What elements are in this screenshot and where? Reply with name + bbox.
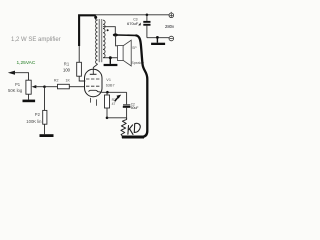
ground below P1 [23,100,36,103]
wire node to R2 [45,86,58,88]
svg-text:1,2 W SE amplifier: 1,2 W SE amplifier [11,37,61,43]
terminal minus [169,36,174,41]
KD logo K [128,125,133,134]
terminal plus [170,12,172,13]
svg-text:R1: R1 [64,62,70,67]
junction dot bottom tap [109,56,112,59]
ground at B- [156,38,158,43]
top supply rail [95,14,170,16]
svg-text:P2: P2 [35,112,41,117]
P1 bottom wire [28,94,30,99]
transformer T1 core [99,19,100,62]
cathode [89,90,102,92]
wire blob down to speaker [116,35,118,46]
svg-text:47: 47 [112,102,116,106]
wire secondary bottom tap [103,57,118,59]
svg-text:P1: P1 [15,82,21,87]
tube V1 envelope [85,69,103,96]
swoosh bottom edge [122,136,144,139]
cathode wire to R3/C2 [102,91,127,93]
cursor arrow [116,95,121,99]
squiggle chassis link [121,118,127,137]
wire node down to P2 [44,87,46,111]
wire secondary top tap [103,27,115,34]
svg-text:1,25VAC: 1,25VAC [17,60,36,66]
ground below P2 [40,134,54,137]
B- wire to terminal [147,37,169,39]
svg-text:670uF: 670uF [127,21,139,26]
svg-text:100K lin: 100K lin [26,119,42,124]
capacitor C2 50uF [126,92,128,104]
P2 bottom wire [44,124,46,134]
svg-text:63B7: 63B7 [106,83,115,87]
plate bar [90,73,97,75]
transformer secondary winding [103,20,105,58]
grid g2 dashed [86,78,101,80]
input arrow [8,71,15,75]
ground at secondary [109,58,111,64]
svg-text:50uF: 50uF [131,106,139,110]
svg-text:R2: R2 [54,79,59,83]
node junction P1 wiper / grid [43,85,46,88]
svg-text:1K: 1K [66,79,71,83]
KD logo D [134,123,140,132]
capacitor C3 670uF [146,14,149,17]
potentiometer P1 [26,80,31,94]
wire R1 top thin [78,46,80,63]
thick swoosh wire from speaker junction [117,34,136,36]
svg-text:280v: 280v [165,24,175,29]
wire R1 bottom to screen grid [79,76,85,81]
junction primary top tap [95,15,97,20]
thick B+ wire [79,15,96,46]
junction blob speaker top [113,33,118,36]
svg-text:50K log: 50K log [8,88,23,93]
cathode ground rail [106,117,109,120]
potentiometer P2 [43,110,47,124]
heater stub 1 [90,98,92,103]
P1 wiper arrow [32,85,37,88]
resistor R1 100 [77,62,82,76]
stray node dot [107,29,109,31]
resistor R2 1K [58,84,70,89]
grid g1 dashed [86,85,101,87]
svg-text:V1: V1 [106,78,111,82]
heater stub 2 [96,99,98,105]
svg-text:SP: SP [132,46,137,50]
speaker SP [118,46,124,61]
resistor R3 47 [106,92,108,95]
junction ground tap [156,36,159,39]
plate lead from primary bottom [93,64,97,74]
wire R2 to tube grid [69,86,85,88]
svg-text:100: 100 [63,67,71,72]
wire input to P1 [15,73,29,81]
transformer primary winding [96,20,98,64]
